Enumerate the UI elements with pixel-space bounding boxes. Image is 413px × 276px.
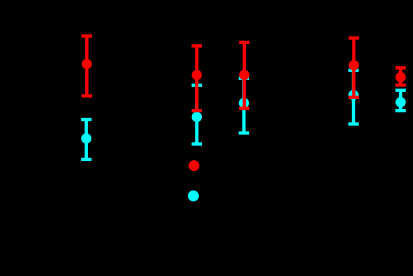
cyan marker 4 xyxy=(348,90,358,100)
red errorbar point 1 xyxy=(82,36,92,96)
cyan marker 1 xyxy=(81,133,91,143)
red errorbar point 2 xyxy=(192,46,202,111)
red markers xyxy=(82,59,406,83)
cyan errorbar point 2 xyxy=(192,85,202,144)
red marker 3 xyxy=(239,70,249,80)
red errorbar point 3 xyxy=(239,42,249,108)
red errorbar point 5 xyxy=(395,68,405,85)
cyan series (drawn first, under red) xyxy=(81,70,406,159)
red marker 1 xyxy=(82,59,92,69)
cyan marker 5 xyxy=(395,97,405,107)
legend cyan dot xyxy=(188,190,199,201)
cyan marker 3 xyxy=(239,98,249,108)
red series (drawn on top) xyxy=(82,36,406,111)
cyan markers xyxy=(81,90,406,144)
red marker 4 xyxy=(349,60,359,70)
cyan errorbar point 4 xyxy=(348,70,358,124)
red errorbar point 4 xyxy=(349,38,359,97)
cyan marker 2 xyxy=(192,112,202,122)
legend red dot xyxy=(189,160,200,171)
cyan errorbar point 1 xyxy=(81,120,91,160)
cyan errorbar point 5 xyxy=(395,90,405,110)
cyan errorbar point 3 xyxy=(239,78,249,133)
red marker 5 xyxy=(395,72,405,82)
red marker 2 xyxy=(192,70,202,80)
